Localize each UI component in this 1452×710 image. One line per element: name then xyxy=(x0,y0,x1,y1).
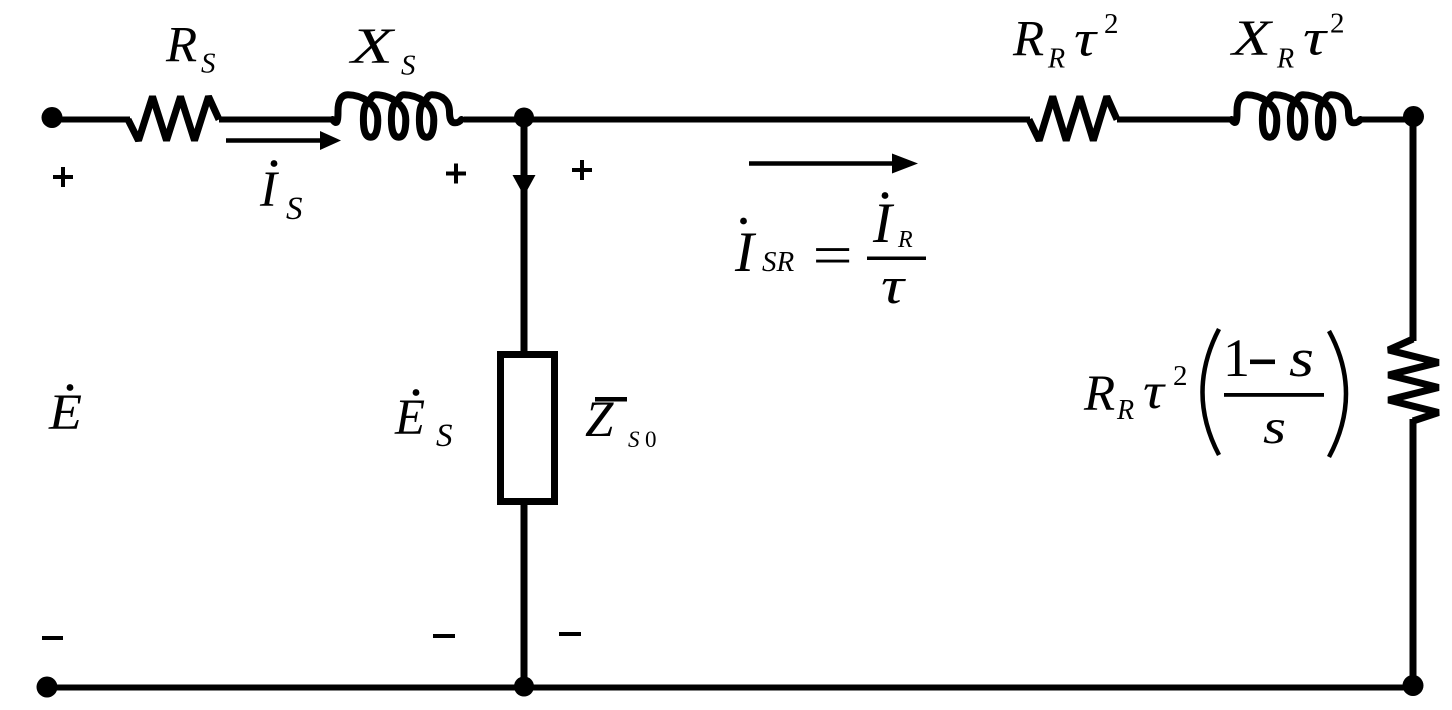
plus sign mid-left xyxy=(446,164,466,184)
svg-text:1: 1 xyxy=(1223,328,1250,388)
plus sign left xyxy=(53,167,73,187)
wire middle vertical lower xyxy=(521,501,528,688)
minus sign mid-right xyxy=(559,632,581,636)
svg-text:S: S xyxy=(401,50,416,82)
plus sign mid-right xyxy=(572,160,592,180)
impedance box ZS0 xyxy=(501,355,555,502)
svg-text:X: X xyxy=(348,19,395,75)
label ES xyxy=(413,389,420,396)
wire top rail middle xyxy=(464,117,1030,123)
svg-text:s: s xyxy=(1263,399,1286,454)
resistor RS xyxy=(128,97,219,141)
svg-text:R: R xyxy=(1012,12,1044,68)
svg-text:E: E xyxy=(48,385,82,441)
wire between RS and XS xyxy=(219,117,334,123)
svg-text:τ: τ xyxy=(1143,364,1166,420)
svg-text:I: I xyxy=(872,192,895,255)
arrow on middle vertical wire xyxy=(513,175,536,196)
svg-text:S: S xyxy=(286,191,303,227)
node junction bottom-middle xyxy=(514,677,534,697)
svg-text:E: E xyxy=(394,390,425,446)
label E xyxy=(67,384,74,391)
label ISR = IR/tau xyxy=(740,218,747,225)
svg-text:R: R xyxy=(897,227,913,253)
node corner top-right xyxy=(1403,106,1424,127)
wire middle vertical upper xyxy=(521,119,528,355)
svg-text:R: R xyxy=(165,18,197,74)
resistor RR tau2 (1-s)/s vertical xyxy=(1389,339,1439,421)
wire between RR and XR xyxy=(1117,117,1232,123)
svg-text:τ: τ xyxy=(1074,12,1098,68)
current arrow ISR xyxy=(749,161,895,166)
svg-text:2: 2 xyxy=(1330,8,1345,40)
label ZS0 xyxy=(595,397,627,402)
svg-text:Z: Z xyxy=(585,392,614,448)
svg-text:τ: τ xyxy=(1303,11,1328,67)
node junction top-middle xyxy=(514,108,534,128)
node terminal top-left xyxy=(42,107,63,128)
svg-text:R: R xyxy=(1276,44,1294,75)
current arrow IS xyxy=(226,138,324,143)
svg-text:0: 0 xyxy=(645,427,657,452)
wire top rail left segment xyxy=(52,117,130,123)
svg-text:2: 2 xyxy=(1104,8,1119,40)
svg-text:SR: SR xyxy=(762,246,795,278)
svg-text:S: S xyxy=(628,427,640,452)
wire top rail right end xyxy=(1359,117,1413,123)
node terminal bottom-left xyxy=(37,677,58,698)
svg-text:R: R xyxy=(1047,44,1065,75)
svg-text:I: I xyxy=(734,221,757,284)
wire right vertical lower xyxy=(1410,419,1417,688)
svg-text:R: R xyxy=(1116,395,1134,426)
label IS xyxy=(271,160,278,167)
svg-text:S: S xyxy=(201,48,216,80)
svg-text:X: X xyxy=(1229,11,1273,67)
svg-text:S: S xyxy=(436,418,453,454)
inductor XR tau2 xyxy=(1232,95,1361,137)
inductor XS xyxy=(333,95,462,137)
svg-text:τ: τ xyxy=(881,258,907,315)
minus sign left xyxy=(42,636,63,640)
svg-text:I: I xyxy=(259,162,279,218)
wire bottom rail xyxy=(47,685,1413,691)
svg-text:2: 2 xyxy=(1173,360,1188,392)
resistor RR tau2 top xyxy=(1029,97,1117,141)
node corner bottom-right xyxy=(1403,675,1424,696)
wire right vertical upper xyxy=(1410,117,1417,341)
svg-text:R: R xyxy=(1083,366,1115,422)
svg-text:=: = xyxy=(808,225,856,288)
minus sign mid-left xyxy=(433,634,455,638)
svg-text:s: s xyxy=(1289,328,1314,388)
